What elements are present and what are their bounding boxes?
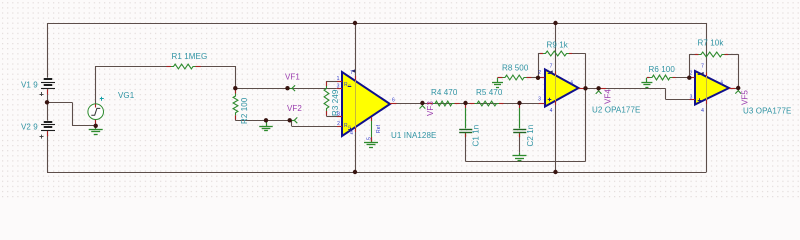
svg-text:V1 9: V1 9 bbox=[21, 81, 38, 90]
svg-text:C1 1n: C1 1n bbox=[472, 125, 481, 147]
svg-text:U3 OPA177E: U3 OPA177E bbox=[743, 107, 791, 116]
svg-text:4: 4 bbox=[550, 108, 553, 114]
svg-text:1: 1 bbox=[337, 76, 340, 82]
svg-text:VF3: VF3 bbox=[426, 101, 435, 116]
svg-text:2: 2 bbox=[538, 70, 541, 76]
svg-text:7: 7 bbox=[350, 70, 353, 76]
svg-text:2: 2 bbox=[690, 71, 693, 77]
svg-text:Ref: Ref bbox=[376, 124, 382, 133]
svg-text:RG: RG bbox=[344, 82, 351, 88]
svg-text:R2 100: R2 100 bbox=[240, 97, 249, 124]
svg-text:7: 7 bbox=[550, 64, 553, 70]
svg-text:R4 470: R4 470 bbox=[431, 88, 458, 97]
svg-text:7: 7 bbox=[701, 64, 704, 70]
svg-text:VF4: VF4 bbox=[604, 89, 613, 104]
svg-text:5: 5 bbox=[367, 137, 373, 140]
svg-text:VF2: VF2 bbox=[287, 104, 302, 113]
svg-text:R5 470: R5 470 bbox=[476, 88, 503, 97]
svg-text:R8 500: R8 500 bbox=[502, 64, 529, 73]
svg-text:6: 6 bbox=[392, 98, 395, 104]
svg-text:VF1: VF1 bbox=[285, 73, 300, 82]
svg-text:2: 2 bbox=[337, 121, 340, 127]
svg-text:3: 3 bbox=[337, 84, 340, 90]
svg-text:RG: RG bbox=[344, 123, 351, 129]
svg-text:3: 3 bbox=[538, 97, 541, 103]
svg-text:VG1: VG1 bbox=[118, 91, 135, 100]
svg-text:4: 4 bbox=[701, 108, 704, 114]
svg-text:8: 8 bbox=[337, 112, 340, 118]
svg-text:U2 OPA177E: U2 OPA177E bbox=[592, 106, 640, 115]
svg-text:C2 1n: C2 1n bbox=[526, 125, 535, 147]
svg-text:R9 1k: R9 1k bbox=[547, 41, 569, 50]
svg-text:6: 6 bbox=[571, 81, 574, 87]
svg-text:V2 9: V2 9 bbox=[21, 123, 38, 132]
svg-text:VF5: VF5 bbox=[741, 90, 750, 105]
svg-text:U1 INA128E: U1 INA128E bbox=[391, 131, 436, 140]
svg-text:R6 100: R6 100 bbox=[649, 65, 676, 74]
svg-text:6: 6 bbox=[721, 81, 724, 87]
svg-text:R7 10k: R7 10k bbox=[698, 39, 725, 48]
svg-text:3: 3 bbox=[690, 95, 693, 101]
svg-text:R1 1MEG: R1 1MEG bbox=[172, 52, 208, 61]
svg-text:4: 4 bbox=[350, 131, 353, 137]
